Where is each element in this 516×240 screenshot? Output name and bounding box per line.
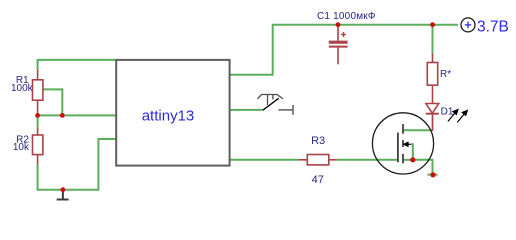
junction node ground xyxy=(61,187,66,192)
wire VCC net: IC right pin to supply rail xyxy=(230,25,458,75)
wire R2 bottom to ground run to IC left pin xyxy=(38,139,116,190)
wire bottom tee bar xyxy=(427,174,437,176)
supply symbol +3.7V xyxy=(461,18,475,32)
IC U1 attiny13 box xyxy=(116,60,229,166)
svg-text:D1: D1 xyxy=(441,106,454,117)
svg-text:attiny13: attiny13 xyxy=(142,108,195,125)
wire IC right pin to R3 left xyxy=(230,159,298,161)
wire VCC from R1 top to IC top-left corner xyxy=(38,60,117,70)
wire MOSFET body to source node xyxy=(411,144,413,160)
resistor R2 xyxy=(33,127,43,164)
wire divider node to IC left pin xyxy=(38,114,116,116)
wire R3 right to MOSFET gate xyxy=(337,159,399,161)
svg-text:C1 1000мкФ: C1 1000мкФ xyxy=(317,11,376,22)
transistor Q1 gate bar xyxy=(397,133,399,163)
transistor Q1 body-diode arrow xyxy=(404,142,411,146)
junction node bottom tee xyxy=(430,172,435,177)
transistor Q1 channel segments xyxy=(402,124,404,163)
junction node R* top xyxy=(430,22,435,27)
wire supply rail down to R* xyxy=(432,25,434,54)
LED D1 emission arrows xyxy=(448,110,467,123)
svg-text:47: 47 xyxy=(312,174,324,186)
resistor R* xyxy=(427,54,437,104)
junction node source xyxy=(410,157,415,162)
wire IC right pin to switch xyxy=(230,109,263,111)
wire source node to bottom tee xyxy=(413,160,433,175)
wire MOSFET drain to LED cathode xyxy=(403,129,432,131)
resistor R1 xyxy=(33,70,43,116)
switch S1 xyxy=(257,95,293,115)
svg-text:100k: 100k xyxy=(11,83,34,94)
capacitor C1 xyxy=(329,25,348,65)
resistor R3 xyxy=(298,155,337,165)
wire MOSFET source stub xyxy=(403,159,413,161)
transistor Q1 MOSFET circle xyxy=(372,113,433,174)
svg-text:R3: R3 xyxy=(311,135,325,147)
ground symbol bottom-left xyxy=(57,190,69,200)
svg-text:R*: R* xyxy=(440,69,451,80)
wire divider node down to R2 pin xyxy=(37,115,39,127)
junction node stub join xyxy=(60,113,65,118)
LED D1 xyxy=(426,104,439,131)
wire stub from R1 right side to divider node xyxy=(43,89,62,115)
svg-text:10k: 10k xyxy=(13,142,30,153)
junction node divider left xyxy=(35,113,40,118)
svg-text:3.7В: 3.7В xyxy=(477,18,509,35)
junction node C1 xyxy=(336,22,341,27)
